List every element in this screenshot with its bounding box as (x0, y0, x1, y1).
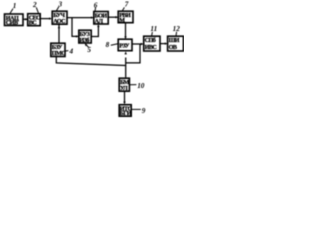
svg-text:ВС: ВС (29, 20, 37, 26)
svg-text:4: 4 (69, 47, 74, 55)
svg-text:ОВ: ОВ (169, 45, 177, 51)
svg-text:7: 7 (125, 0, 129, 8)
svg-text:ПМС: ПМС (52, 51, 65, 57)
svg-text:СИВ: СИВ (6, 21, 18, 27)
svg-text:АЛ: АЛ (95, 19, 104, 25)
svg-text:11: 11 (150, 25, 157, 33)
svg-text:РЗУ: РЗУ (119, 43, 130, 49)
svg-text:ИЗб: ИЗб (79, 37, 89, 44)
svg-text:СПб: СПб (145, 37, 156, 44)
svg-text:ШИ: ШИ (169, 38, 180, 44)
svg-text:10: 10 (137, 82, 145, 90)
svg-text:ИВС: ИВС (145, 45, 157, 51)
svg-text:БГИ: БГИ (120, 111, 132, 117)
svg-text:9: 9 (142, 107, 146, 115)
svg-text:АОС: АОС (53, 19, 65, 25)
svg-text:УЛ: УЛ (120, 86, 128, 92)
svg-text:М: М (119, 18, 125, 24)
svg-text:8: 8 (106, 41, 110, 49)
